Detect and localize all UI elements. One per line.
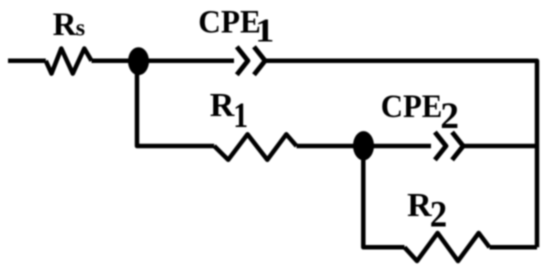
wire R1 to node B (297, 144, 356, 149)
svg-text:CPE: CPE (198, 4, 260, 40)
node B junction dot (353, 131, 374, 160)
node A junction dot (128, 47, 149, 75)
label CPE2 (381, 89, 459, 137)
svg-text:2: 2 (440, 96, 459, 137)
wire CPE1 to top-right corner and right vertical (266, 61, 538, 248)
capacitor CPE1 (237, 47, 265, 75)
label R1 (210, 87, 248, 135)
wire node B to CPE2 (372, 144, 431, 149)
wire CPE2 to right vertical (464, 144, 537, 149)
svg-text:CPE: CPE (381, 89, 443, 125)
resistor R1 (214, 134, 296, 160)
wire left stub (8, 59, 46, 64)
resistor Rs (46, 49, 92, 74)
wire Rs to node A (92, 59, 131, 64)
svg-text:1: 1 (255, 13, 274, 50)
svg-text:R: R (407, 187, 432, 224)
resistor R2 (405, 233, 490, 261)
svg-text:R: R (210, 87, 235, 124)
wire R2 to bottom-right corner (490, 245, 538, 250)
svg-text:s: s (76, 16, 85, 42)
wire node A down to middle branch (137, 61, 214, 146)
wire node B down to bottom branch (363, 146, 404, 247)
svg-text:R: R (53, 7, 78, 43)
svg-text:2: 2 (430, 195, 447, 236)
capacitor CPE2 (435, 132, 463, 160)
svg-text:1: 1 (233, 95, 248, 135)
wire node A to CPE1 (147, 59, 234, 64)
label Rs (53, 7, 86, 43)
label R2 (407, 187, 447, 236)
label CPE1 (198, 4, 274, 49)
